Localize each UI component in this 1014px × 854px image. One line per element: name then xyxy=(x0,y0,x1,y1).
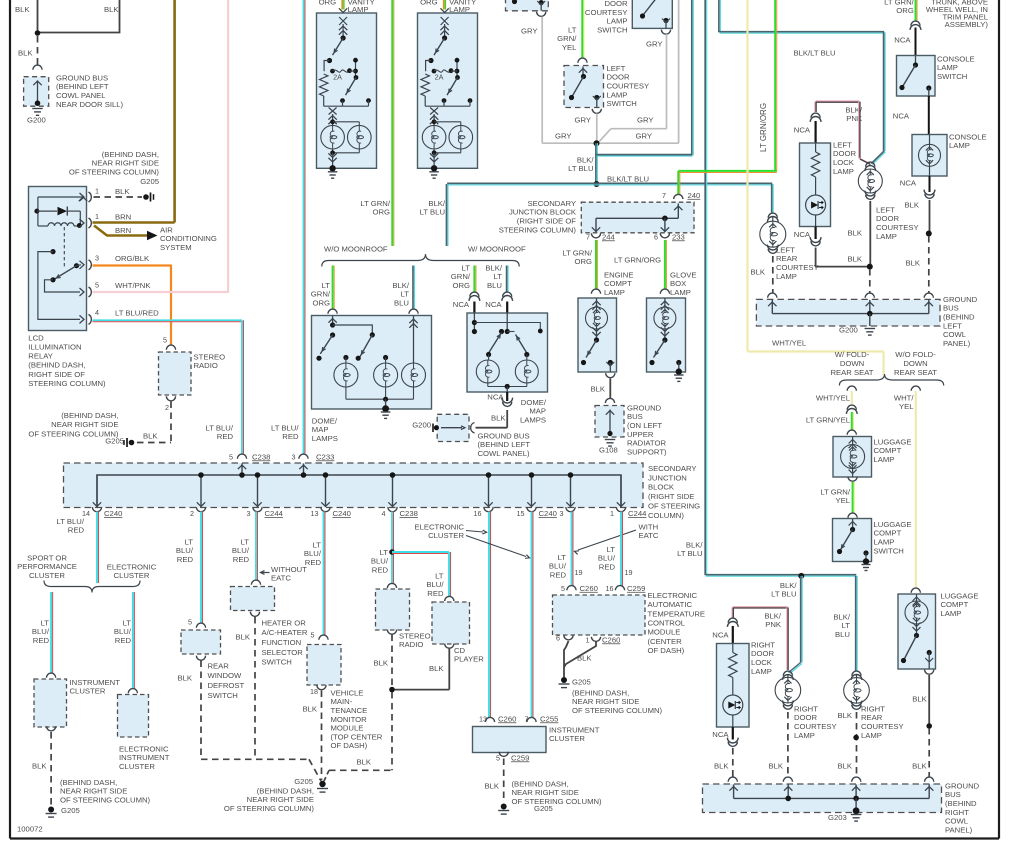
console lamp module xyxy=(912,132,987,176)
svg-text:TEMPERATURE: TEMPERATURE xyxy=(648,609,706,618)
svg-text:LCD: LCD xyxy=(28,333,44,342)
svg-text:LAMP: LAMP xyxy=(861,731,882,740)
svg-text:COURTESY: COURTESY xyxy=(776,263,819,272)
node branch to CD player xyxy=(389,549,395,555)
label glove box lamp xyxy=(670,270,697,297)
svg-text:G200: G200 xyxy=(839,325,858,334)
svg-text:COWL PANEL): COWL PANEL) xyxy=(478,449,531,458)
svg-text:OF STEERING COLUMN): OF STEERING COLUMN) xyxy=(512,797,603,806)
svg-text:W/O FOLD-: W/O FOLD- xyxy=(895,350,936,359)
connector CD player bottom xyxy=(445,644,454,649)
svg-text:WITHOUT: WITHOUT xyxy=(271,565,307,574)
svg-text:OF DASH): OF DASH) xyxy=(648,646,685,655)
svg-text:4: 4 xyxy=(95,308,99,317)
svg-text:ILLUMINATION: ILLUMINATION xyxy=(28,343,81,352)
svg-text:7: 7 xyxy=(586,232,590,241)
label rear window defrost switch xyxy=(208,661,245,699)
svg-text:LAMP: LAMP xyxy=(941,609,962,618)
svg-text:GRY: GRY xyxy=(521,26,538,35)
svg-text:OF STEERING COLUMN): OF STEERING COLUMN) xyxy=(224,804,315,813)
svg-text:BLK/: BLK/ xyxy=(686,540,704,549)
svg-text:C238: C238 xyxy=(400,509,418,518)
svg-text:SELECTOR: SELECTOR xyxy=(262,648,304,657)
label BLK/PNK left door lock xyxy=(845,105,863,123)
svg-text:RIGHT: RIGHT xyxy=(945,808,969,817)
svg-text:1: 1 xyxy=(95,186,99,195)
ground bus G200 (behind left cowl panel) xyxy=(756,295,977,348)
svg-text:G205: G205 xyxy=(572,677,591,686)
svg-text:SWITCH: SWITCH xyxy=(937,72,967,81)
svg-text:SECONDARY: SECONDARY xyxy=(527,199,576,208)
svg-text:MODULE: MODULE xyxy=(648,628,681,637)
ground G205 EATC xyxy=(559,677,591,688)
svg-text:BLK: BLK xyxy=(104,5,119,14)
wire LT BLU/RED pin16 to instrument cluster 2 xyxy=(489,512,491,719)
svg-text:PERFORMANCE: PERFORMANCE xyxy=(17,562,77,571)
connector NCA dome lamps 2 left xyxy=(453,292,480,313)
svg-text:RIGHT: RIGHT xyxy=(751,640,775,649)
svg-text:RED: RED xyxy=(599,563,616,572)
svg-text:LT: LT xyxy=(185,537,194,546)
connector junction exit 6 233 xyxy=(654,232,685,241)
svg-text:NCA: NCA xyxy=(712,730,729,739)
svg-text:LT: LT xyxy=(435,571,444,580)
svg-text:RADIO: RADIO xyxy=(399,640,423,649)
svg-text:NEAR RIGHT SIDE: NEAR RIGHT SIDE xyxy=(247,795,314,804)
svg-text:NEAR RIGHT SIDE: NEAR RIGHT SIDE xyxy=(572,697,639,706)
svg-text:GRN/: GRN/ xyxy=(311,290,331,299)
luggage compartment lamp module right xyxy=(898,591,979,669)
svg-text:ORG: ORG xyxy=(319,0,337,6)
svg-text:CLUSTER: CLUSTER xyxy=(70,687,106,696)
svg-text:BLK: BLK xyxy=(115,187,130,196)
svg-text:240: 240 xyxy=(688,191,701,200)
svg-text:BLK: BLK xyxy=(912,694,927,703)
svg-text:RED: RED xyxy=(305,558,322,567)
svg-text:16: 16 xyxy=(606,584,614,593)
svg-text:1: 1 xyxy=(586,635,590,644)
svg-text:LAMP: LAMP xyxy=(874,455,895,464)
svg-text:NCA: NCA xyxy=(894,35,911,44)
connector right rear courtesy lamp xyxy=(851,671,862,680)
label dome/map lamps 1 xyxy=(312,416,338,443)
svg-text:LAMP: LAMP xyxy=(607,17,628,26)
svg-text:CONDITIONING: CONDITIONING xyxy=(160,234,217,243)
svg-text:W/ MOONROOF: W/ MOONROOF xyxy=(468,244,526,253)
svg-text:16: 16 xyxy=(474,509,482,518)
wire LT GRN/ORG w/o moonroof branch xyxy=(311,266,334,310)
svg-text:OF STEERING COLUMN): OF STEERING COLUMN) xyxy=(572,706,663,715)
wire WHT/YEL from top to fold-down fork xyxy=(748,0,884,375)
svg-text:NEAR RIGHT SIDE: NEAR RIGHT SIDE xyxy=(51,420,118,429)
relay pin 3 ORG/BLK xyxy=(80,253,151,269)
luggage compartment lamp switch xyxy=(833,519,912,571)
svg-text:LEFT: LEFT xyxy=(833,140,852,149)
label without EATC xyxy=(261,565,308,583)
svg-text:SWITCH: SWITCH xyxy=(208,691,238,700)
svg-text:STEREO: STEREO xyxy=(194,352,226,361)
svg-text:LUGGAGE: LUGGAGE xyxy=(874,437,912,446)
svg-text:RED: RED xyxy=(68,526,85,535)
svg-text:HEATER OR: HEATER OR xyxy=(262,618,307,627)
svg-text:1: 1 xyxy=(610,509,614,518)
relay pin 1 BRN xyxy=(80,212,132,228)
svg-text:GROUND BUS: GROUND BUS xyxy=(478,431,530,440)
svg-text:LAMP: LAMP xyxy=(449,5,470,14)
rear window defrost switch xyxy=(181,630,221,654)
wire LT BLU/RED pin1 to EATC xyxy=(598,512,633,587)
svg-text:COURTESY: COURTESY xyxy=(876,223,919,232)
svg-text:G200: G200 xyxy=(27,115,46,124)
svg-text:19: 19 xyxy=(575,568,583,577)
svg-text:BLK: BLK xyxy=(235,632,250,641)
node splice left door lamps xyxy=(867,264,873,270)
svg-text:LT BLU: LT BLU xyxy=(568,164,593,173)
svg-text:1: 1 xyxy=(95,212,99,221)
ground G205 bottom-center xyxy=(294,777,328,792)
wire BLK right door courtesy to ground bus xyxy=(768,712,787,777)
wire BLK engine lamp to G108 xyxy=(590,379,610,399)
wire BLK/LT BLU to moonroof fork xyxy=(420,184,448,246)
relay armature dashed link xyxy=(63,227,65,267)
svg-text:LT: LT xyxy=(41,618,50,627)
svg-text:BLK: BLK xyxy=(837,711,852,720)
svg-text:BLU: BLU xyxy=(835,630,850,639)
svg-text:DOOR: DOOR xyxy=(607,73,631,82)
svg-text:BLU/: BLU/ xyxy=(176,546,194,555)
wire BLK/LT BLU w/ moonroof branch xyxy=(485,263,508,292)
svg-text:LEFT: LEFT xyxy=(943,321,962,330)
fork brace fold-down rear seat xyxy=(839,374,943,386)
svg-text:BLU/: BLU/ xyxy=(304,549,322,558)
splice to G205 (stereo radio) xyxy=(105,436,134,447)
heater or A/C-heater function selector switch xyxy=(231,587,275,611)
svg-text:ASSEMBLY): ASSEMBLY) xyxy=(945,20,989,29)
svg-text:LT BLU: LT BLU xyxy=(420,208,445,217)
svg-text:GROUND: GROUND xyxy=(943,295,978,304)
svg-text:NCA: NCA xyxy=(900,178,917,187)
wire LT BLU/RED pin15 to instrument cluster 2 xyxy=(532,512,534,719)
svg-text:LT GRN/: LT GRN/ xyxy=(820,487,850,496)
svg-text:LAMP: LAMP xyxy=(833,167,854,176)
wire BLK splice to ground bus xyxy=(847,254,869,292)
connector heater switch bottom xyxy=(250,612,259,617)
svg-text:C244: C244 xyxy=(265,509,284,518)
label sport or performance cluster xyxy=(17,553,77,580)
instrument cluster module 2 xyxy=(473,725,600,752)
wire BLK EATC pin6 to G205 xyxy=(564,641,569,677)
svg-text:COMPT: COMPT xyxy=(941,600,969,609)
secondary junction block (right of steering column) xyxy=(499,199,694,234)
svg-text:3: 3 xyxy=(95,253,99,262)
junction block bus bar xyxy=(97,475,621,507)
node BLK/LT BLU branch right door xyxy=(771,573,804,599)
svg-text:BRN: BRN xyxy=(115,226,131,235)
svg-text:C259: C259 xyxy=(627,584,645,593)
junction block entry pin 5 C238 xyxy=(229,452,270,477)
junction block exit pin 14 C240 xyxy=(82,475,122,518)
label EATC module xyxy=(648,591,706,655)
ground vanity lamp xyxy=(328,172,338,178)
connector junction exit 7 244 xyxy=(586,232,616,241)
lamp left door courtesy xyxy=(858,169,918,241)
svg-text:(BEHIND LEFT: (BEHIND LEFT xyxy=(478,440,531,449)
svg-text:BLK: BLK xyxy=(18,48,33,57)
svg-text:DOOR: DOOR xyxy=(876,214,900,223)
ground bus G200 (behind left cowl panel near door sill) xyxy=(24,73,124,124)
wire BLK/PNK right door lock lamp xyxy=(732,607,788,670)
console lamp switch xyxy=(897,54,975,96)
svg-text:COURTESY: COURTESY xyxy=(861,722,904,731)
node splice top-left xyxy=(35,30,41,36)
svg-text:LAMP: LAMP xyxy=(751,667,772,676)
svg-text:JUNCTION: JUNCTION xyxy=(648,473,687,482)
svg-text:VEHICLE: VEHICLE xyxy=(331,688,364,697)
connector stereo radio pin 5 xyxy=(163,335,176,349)
svg-text:(BEHIND DASH,: (BEHIND DASH, xyxy=(572,688,629,697)
connector ground bus G203 entries xyxy=(728,777,934,782)
svg-text:ORG: ORG xyxy=(372,208,390,217)
connector CD player xyxy=(445,596,454,601)
svg-text:LT BLU/: LT BLU/ xyxy=(57,517,85,526)
svg-text:MAIN-: MAIN- xyxy=(331,697,353,706)
svg-text:ORG: ORG xyxy=(896,6,914,15)
wire BRN branch to air conditioning system xyxy=(94,225,217,251)
svg-text:WITH: WITH xyxy=(639,522,659,531)
svg-text:4: 4 xyxy=(382,509,386,518)
svg-text:PNK: PNK xyxy=(765,620,782,629)
relay coil xyxy=(38,197,87,228)
connector engine compt lamp xyxy=(591,289,600,294)
svg-text:LAMP: LAMP xyxy=(776,272,797,281)
svg-text:STEERING COLUMN): STEERING COLUMN) xyxy=(28,379,106,388)
svg-text:JUNCTION BLOCK: JUNCTION BLOCK xyxy=(509,208,577,217)
svg-text:YEL: YEL xyxy=(562,43,577,52)
svg-text:RED: RED xyxy=(177,555,194,564)
ground bus G203 (behind right cowl panel) xyxy=(703,781,980,834)
svg-text:BLK: BLK xyxy=(904,200,919,209)
wire LT GRN/ORG to console lamp switch xyxy=(916,0,918,21)
svg-text:GRY: GRY xyxy=(637,115,654,124)
svg-text:WHT/: WHT/ xyxy=(894,393,915,402)
svg-text:COWL: COWL xyxy=(945,817,969,826)
svg-text:ORG: ORG xyxy=(420,0,438,6)
connector heater function switch xyxy=(251,580,260,585)
wire LT BLU/RED pin14 to cluster fork xyxy=(57,512,99,584)
wire BLK vertical top-left xyxy=(15,0,38,33)
connector left door courtesy switch bottom xyxy=(592,109,601,114)
note text G205 bottom-left xyxy=(60,778,151,805)
svg-text:BLK: BLK xyxy=(905,258,920,267)
svg-text:BLK/: BLK/ xyxy=(833,612,851,621)
wire BLK EATC pin1 to G205 xyxy=(564,641,596,667)
svg-text:6: 6 xyxy=(654,232,658,241)
svg-text:RED: RED xyxy=(427,589,444,598)
svg-text:MONITOR: MONITOR xyxy=(331,715,368,724)
svg-text:C240: C240 xyxy=(333,509,351,518)
label LT GRN/ORG console xyxy=(884,0,914,15)
junction block exit pin 4 C238 xyxy=(382,472,418,518)
wire BLK stereo radio 2 xyxy=(373,635,392,688)
svg-text:GLOVE: GLOVE xyxy=(670,270,697,279)
svg-text:NCA: NCA xyxy=(794,230,811,239)
svg-text:BLK/: BLK/ xyxy=(577,155,595,164)
svg-text:COLUMN): COLUMN) xyxy=(648,511,684,520)
ground G205 instrument cluster 2 xyxy=(498,804,553,815)
svg-text:LAMPS: LAMPS xyxy=(520,416,546,425)
svg-text:BLK: BLK xyxy=(177,673,192,682)
svg-text:EATC: EATC xyxy=(271,574,291,583)
junction block exit pin 13 C240 xyxy=(311,472,351,518)
CD player module xyxy=(432,602,484,664)
wire BLK dashed to G205 via corner xyxy=(324,692,392,781)
svg-text:RIGHT: RIGHT xyxy=(794,704,818,713)
svg-text:ELECTRONIC: ELECTRONIC xyxy=(119,744,169,753)
svg-text:CLUSTER: CLUSTER xyxy=(114,571,150,580)
svg-text:LT BLU/: LT BLU/ xyxy=(206,423,234,432)
svg-text:3: 3 xyxy=(247,509,251,518)
wire BLK VMMM pin18 to G205 xyxy=(302,691,321,781)
wire BLK left door courtesy to splice xyxy=(847,201,870,267)
wire GRY left branch xyxy=(521,17,594,144)
svg-text:ELECTRONIC: ELECTRONIC xyxy=(414,522,464,531)
svg-text:OF STEERING: OF STEERING xyxy=(648,502,700,511)
svg-text:BLU/: BLU/ xyxy=(426,580,444,589)
junction block exit pin 2 xyxy=(190,472,206,518)
connector w/ fold-down branch xyxy=(847,386,856,391)
wire LT GRN/YEL to luggage compt lamp xyxy=(806,412,854,430)
luggage compartment lamp module xyxy=(833,437,912,478)
svg-text:CLUSTER: CLUSTER xyxy=(119,762,155,771)
svg-text:BLU/: BLU/ xyxy=(232,546,250,555)
connector luggage lamp right bottom xyxy=(925,670,934,675)
svg-text:C259: C259 xyxy=(511,753,529,762)
instrument cluster module xyxy=(34,678,120,727)
svg-text:MAP: MAP xyxy=(312,425,329,434)
svg-text:OF STEERING COLUMN): OF STEERING COLUMN) xyxy=(69,168,160,177)
svg-text:WHT/PNK: WHT/PNK xyxy=(115,281,151,290)
svg-text:BLK: BLK xyxy=(590,384,605,393)
svg-text:19: 19 xyxy=(625,568,633,577)
connector NCA left door lock lamp bottom xyxy=(794,227,821,246)
svg-text:BLU/: BLU/ xyxy=(549,562,567,571)
svg-text:(BEHIND: (BEHIND xyxy=(943,313,975,322)
svg-text:RIGHT: RIGHT xyxy=(861,704,885,713)
svg-text:BLU: BLU xyxy=(394,299,409,308)
connector NCA console lamp switch xyxy=(894,21,921,56)
svg-text:DEFROST: DEFROST xyxy=(208,681,245,690)
svg-text:CONSOLE: CONSOLE xyxy=(949,132,987,141)
svg-text:DOOR: DOOR xyxy=(794,713,818,722)
wire LT GRN/ORG to engine compt lamp xyxy=(562,240,597,290)
wire ORG/BLK to stereo radio xyxy=(93,265,172,346)
svg-text:2: 2 xyxy=(165,403,169,412)
connector instrument cluster bottom xyxy=(47,726,56,731)
svg-text:WHT/YEL: WHT/YEL xyxy=(772,338,807,347)
svg-text:MAP: MAP xyxy=(529,407,546,416)
glove box lamp module xyxy=(647,298,686,375)
svg-text:RED: RED xyxy=(217,432,234,441)
junction block name text xyxy=(648,464,700,520)
svg-text:2A: 2A xyxy=(333,72,342,81)
svg-text:LT: LT xyxy=(462,263,471,272)
svg-text:18: 18 xyxy=(310,687,318,696)
note text G205 bottom-center xyxy=(224,786,315,813)
svg-text:LUGGAGE: LUGGAGE xyxy=(874,520,912,529)
svg-text:(BEHIND DASH,: (BEHIND DASH, xyxy=(28,361,85,370)
svg-text:100072: 100072 xyxy=(17,824,43,833)
svg-text:(TOP CENTER: (TOP CENTER xyxy=(331,732,383,741)
svg-text:LT GRN/ORG: LT GRN/ORG xyxy=(759,103,768,152)
ground glove box lamp xyxy=(674,375,684,381)
svg-text:5: 5 xyxy=(188,617,192,626)
svg-text:BOX: BOX xyxy=(670,279,686,288)
junction block exit pin 3 C244 xyxy=(247,472,284,518)
connector NCA console lamp bottom xyxy=(900,176,935,198)
label engine compt lamp xyxy=(604,270,633,297)
svg-text:LT GRN/YEL: LT GRN/YEL xyxy=(806,415,851,424)
label electronic cluster left xyxy=(107,562,157,580)
svg-text:COMPT: COMPT xyxy=(874,446,902,455)
svg-text:3: 3 xyxy=(560,509,564,518)
connector instrument cluster 2 pin 13 C260 xyxy=(479,714,516,723)
svg-text:COURTESY: COURTESY xyxy=(607,82,650,91)
node splice console lamp xyxy=(926,231,932,237)
svg-text:C240: C240 xyxy=(539,509,557,518)
svg-text:NCA: NCA xyxy=(794,125,811,134)
vanity lamp module xyxy=(317,13,377,172)
ground G200 right xyxy=(839,325,875,335)
diagram number 100072 xyxy=(17,824,43,833)
splice to G205 (relay pin1) xyxy=(143,193,153,202)
svg-text:NEAR RIGHT SIDE: NEAR RIGHT SIDE xyxy=(512,788,579,797)
connector ground bus G108 xyxy=(605,398,614,403)
wire BLK luggage splice to ground bus xyxy=(912,728,929,777)
wire BLK right door lock to ground bus xyxy=(714,748,733,777)
label vehicle maintenance monitor module xyxy=(331,688,383,750)
dome/map lamps module (w/o moonroof) xyxy=(312,316,432,413)
wire WHT/YEL w/o fold-down to luggage lamp right xyxy=(894,391,916,588)
ground bus G108 (on left upper radiator support) xyxy=(595,403,667,456)
label electronic cluster (arrows) xyxy=(414,522,529,558)
wire LT BLU/RED to instrument cluster xyxy=(32,592,53,673)
right door lock lamp module xyxy=(717,640,776,727)
svg-text:LT: LT xyxy=(322,281,331,290)
ground G205 instrument cluster xyxy=(46,806,80,817)
wire BLK/LT BLU up to top (A) xyxy=(597,0,694,156)
svg-text:5: 5 xyxy=(229,452,233,461)
wire BLK/PNK left door lock lamp xyxy=(815,101,871,165)
svg-text:(ON LEFT: (ON LEFT xyxy=(627,421,662,430)
svg-text:LT: LT xyxy=(494,272,503,281)
electronic instrument cluster module xyxy=(118,695,170,772)
label ORG vanity lamp xyxy=(319,0,375,14)
svg-text:W/O MOONROOF: W/O MOONROOF xyxy=(324,244,388,253)
svg-text:RIGHT SIDE OF: RIGHT SIDE OF xyxy=(28,370,85,379)
svg-text:PANEL): PANEL) xyxy=(945,825,973,834)
connector electronic instrument cluster xyxy=(128,689,137,694)
relay pin 1 BLK xyxy=(80,186,131,202)
connector NCA dome lamps 2 bottom xyxy=(487,392,512,406)
svg-text:DOME/: DOME/ xyxy=(521,398,547,407)
svg-text:6: 6 xyxy=(556,633,560,642)
wire BLK luggage lamp right xyxy=(912,675,929,725)
wire BLK CD player xyxy=(394,649,449,690)
svg-text:STEREO: STEREO xyxy=(399,631,431,640)
svg-text:C260: C260 xyxy=(580,584,598,593)
svg-text:AIR: AIR xyxy=(160,225,173,234)
connector luggage compt lamp right xyxy=(911,588,920,593)
